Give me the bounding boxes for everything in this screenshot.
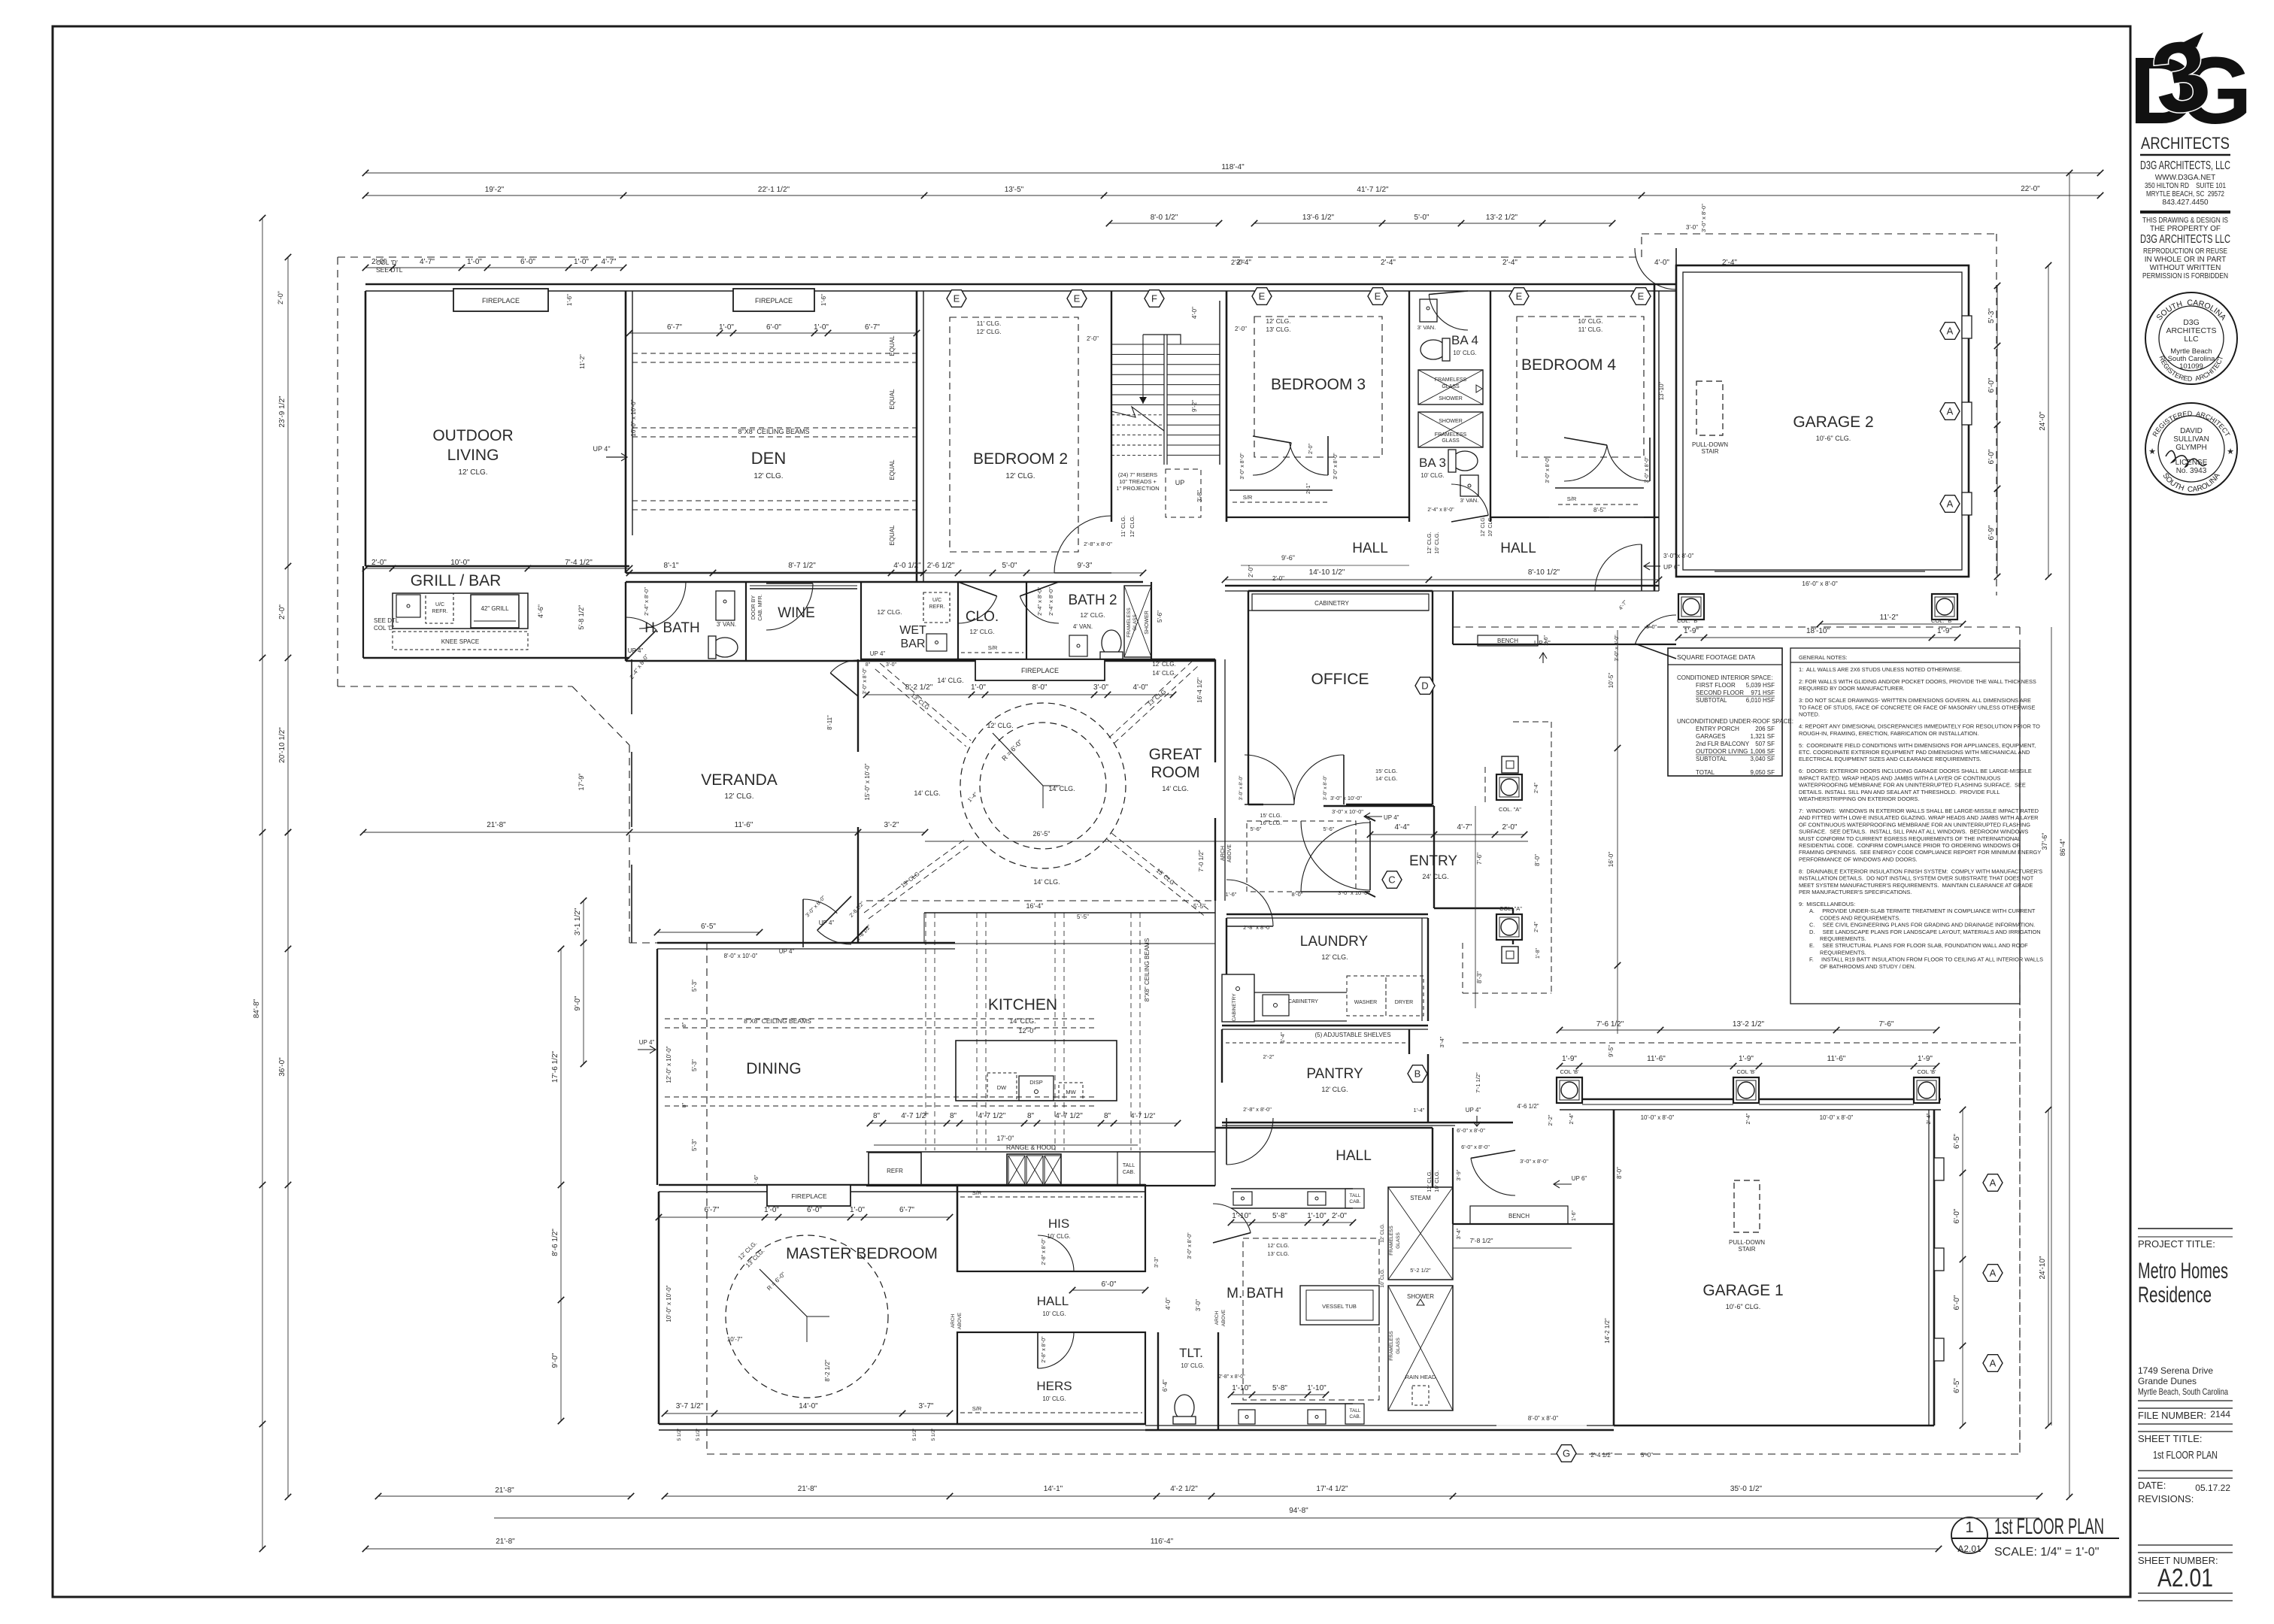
svg-text:05.17.22: 05.17.22 — [2195, 1483, 2230, 1493]
svg-text:DW: DW — [997, 1084, 1007, 1091]
garage1 A markers — [1983, 1174, 2003, 1192]
svg-text:8: DRAINABLE EXTERIOR INSULAT: 8: DRAINABLE EXTERIOR INSULATION FINISH … — [1799, 868, 2042, 874]
svg-text:BEDROOM 2: BEDROOM 2 — [973, 450, 1068, 468]
svg-text:12' CLG.: 12' CLG. — [976, 328, 1001, 335]
svg-text:12' CLG.: 12' CLG. — [753, 472, 783, 480]
svg-text:BENCH: BENCH — [1497, 638, 1518, 644]
svg-text:12' CLG.: 12' CLG. — [1152, 661, 1175, 668]
svg-text:M. BATH: M. BATH — [1226, 1286, 1284, 1301]
bath2 shower — [1124, 586, 1151, 657]
svg-text:E: E — [954, 293, 960, 304]
svg-text:D3G ARCHITECTS LLC: D3G ARCHITECTS LLC — [2140, 233, 2230, 246]
bottom dim rows — [665, 1495, 2039, 1497]
G hexagon — [1557, 1445, 1576, 1462]
svg-text:EQUAL: EQUAL — [889, 335, 896, 356]
svg-text:6'-5": 6'-5" — [701, 923, 716, 931]
svg-text:DETAILS. INSTALL SILL PAN AND: DETAILS. INSTALL SILL PAN AND SEALANT AT… — [1799, 789, 2000, 795]
svg-text:★: ★ — [2227, 447, 2234, 456]
svg-text:1'-8": 1'-8" — [1536, 948, 1541, 959]
svg-text:TALL: TALL — [1349, 1193, 1360, 1198]
svg-text:No. 3943: No. 3943 — [2176, 467, 2207, 475]
svg-text:LICENSE: LICENSE — [2175, 459, 2208, 467]
window marker hexagons E/F top wall — [947, 290, 966, 308]
svg-text:CLO.: CLO. — [966, 609, 999, 625]
svg-text:ROOM: ROOM — [1151, 764, 1199, 781]
bedroom2 door arc — [1054, 516, 1111, 573]
svg-text:SUBTOTAL: SUBTOTAL — [1696, 756, 1727, 762]
svg-text:971 HSF: 971 HSF — [1751, 689, 1775, 696]
svg-text:D: D — [1421, 680, 1428, 692]
svg-text:ARCH: ARCH — [951, 1313, 956, 1328]
svg-text:GLASS: GLASS — [1132, 614, 1138, 631]
svg-text:1'-0": 1'-0" — [467, 258, 482, 266]
svg-text:DATE:: DATE: — [2138, 1480, 2166, 1491]
svg-text:1: 1 — [1965, 1519, 1973, 1536]
svg-text:3'-1 1/2": 3'-1 1/2" — [574, 907, 582, 935]
svg-text:41'-7 1/2": 41'-7 1/2" — [1357, 186, 1389, 194]
svg-text:MUST CONFORM TO CURRENT EGRESS: MUST CONFORM TO CURRENT EGRESS REQUIREME… — [1799, 835, 2021, 842]
svg-text:THIS DRAWING & DESIGN IS: THIS DRAWING & DESIGN IS — [2142, 217, 2228, 225]
svg-text:8'-2 1/2": 8'-2 1/2" — [905, 683, 933, 692]
svg-text:GENERAL NOTES:: GENERAL NOTES: — [1799, 654, 1848, 661]
svg-text:2'-0": 2'-0" — [1308, 444, 1314, 454]
svg-text:1,321 SF: 1,321 SF — [1751, 733, 1775, 740]
svg-text:VERANDA: VERANDA — [701, 771, 778, 789]
svg-text:FIREPLACE: FIREPLACE — [755, 297, 793, 304]
svg-text:FIREPLACE: FIREPLACE — [482, 297, 520, 304]
svg-text:6'-0" x 8'-0": 6'-0" x 8'-0" — [1461, 1144, 1490, 1150]
svg-text:12'-0": 12'-0" — [1019, 1027, 1036, 1035]
svg-text:10' CLG.: 10' CLG. — [1042, 1310, 1066, 1317]
svg-text:5'-2 1/2": 5'-2 1/2" — [1410, 1267, 1431, 1274]
master south wall — [659, 1423, 1145, 1426]
svg-text:3'-0" x 8'-0": 3'-0" x 8'-0" — [1663, 553, 1693, 559]
svg-text:4'-6 1/2": 4'-6 1/2" — [1517, 1103, 1539, 1110]
svg-text:37'-6": 37'-6" — [2041, 833, 2048, 850]
svg-text:94'-8": 94'-8" — [1289, 1507, 1308, 1515]
steam shower — [1388, 1187, 1453, 1280]
svg-text:15' CLG.: 15' CLG. — [1260, 812, 1281, 819]
svg-text:8": 8" — [873, 1112, 881, 1120]
svg-text:SCALE: 1/4" = 1'-0": SCALE: 1/4" = 1'-0" — [1994, 1546, 2099, 1559]
svg-text:FRAMELESS: FRAMELESS — [1435, 432, 1467, 438]
svg-text:13'-6 1/2": 13'-6 1/2" — [1302, 214, 1335, 222]
svg-text:1'-6": 1'-6" — [753, 1174, 760, 1186]
svg-text:3'-0" x 10'-0": 3'-0" x 10'-0" — [1338, 889, 1369, 896]
svg-text:FIRST FLOOR: FIRST FLOOR — [1696, 682, 1736, 689]
svg-text:7'-0 1/2": 7'-0 1/2" — [1198, 850, 1205, 871]
svg-text:12' CLG.: 12' CLG. — [1129, 515, 1135, 537]
bedroom 3 — [1226, 291, 1228, 522]
roof overhang dashed outline — [338, 256, 1642, 258]
svg-text:2'-1": 2'-1" — [1306, 483, 1311, 494]
svg-text:BATH 2: BATH 2 — [1068, 592, 1117, 608]
svg-text:1'-0": 1'-0" — [764, 1206, 779, 1214]
svg-text:13'-10": 13'-10" — [1658, 381, 1665, 400]
svg-text:2'-0": 2'-0" — [1248, 565, 1254, 577]
svg-text:2: FOR WALLS WITH GLIDING AND/: 2: FOR WALLS WITH GLIDING AND/OR POCKET … — [1799, 678, 2036, 685]
svg-text:UP 4": UP 4" — [1384, 814, 1399, 821]
svg-text:101099: 101099 — [2179, 362, 2203, 371]
bedroom 4 — [1517, 317, 1644, 457]
svg-text:KITCHEN: KITCHEN — [988, 996, 1057, 1013]
dining ceiling beams — [665, 1018, 1094, 1020]
svg-text:10' CLG.: 10' CLG. — [1578, 317, 1602, 325]
svg-text:8"X8" CEILING BEAMS: 8"X8" CEILING BEAMS — [1144, 938, 1151, 1001]
svg-text:8'-2 1/2": 8'-2 1/2" — [824, 1359, 831, 1381]
svg-text:REQUIREMENTS.: REQUIREMENTS. — [1820, 935, 1866, 942]
grill bar area — [362, 566, 364, 658]
master bedroom — [658, 1192, 660, 1424]
kitchen dim row — [870, 1123, 1178, 1124]
svg-text:2'-6 1/2": 2'-6 1/2" — [927, 562, 955, 570]
svg-text:SULLIVAN: SULLIVAN — [2173, 435, 2209, 444]
svg-text:8'-0 1/2": 8'-0 1/2" — [1151, 214, 1178, 222]
svg-text:REFR.: REFR. — [929, 604, 945, 610]
svg-text:ENTRY PORCH: ENTRY PORCH — [1696, 726, 1739, 732]
svg-text:STAIR: STAIR — [1702, 448, 1719, 455]
master suite top wall — [659, 1184, 1145, 1186]
svg-text:6'-7": 6'-7" — [865, 323, 880, 332]
garage 2 — [1676, 265, 1969, 577]
bedroom 2 — [950, 317, 1078, 552]
svg-text:5'-8": 5'-8" — [1272, 1384, 1287, 1392]
svg-text:22'-1 1/2": 22'-1 1/2" — [758, 186, 790, 194]
svg-text:5'-6": 5'-6" — [1157, 611, 1163, 623]
svg-text:13' CLG.: 13' CLG. — [1266, 326, 1290, 333]
svg-text:REFR.: REFR. — [432, 609, 448, 614]
svg-text:E: E — [1375, 291, 1381, 302]
svg-text:1'-0": 1'-0" — [814, 323, 829, 332]
svg-text:4'-2 1/2": 4'-2 1/2" — [1170, 1485, 1198, 1493]
svg-text:C: C — [1388, 874, 1395, 886]
svg-text:3'-0" x 8'-0": 3'-0" x 8'-0" — [863, 668, 868, 695]
svg-text:BA 4: BA 4 — [1451, 333, 1478, 347]
svg-text:2'-8" x 8'-0": 2'-8" x 8'-0" — [1041, 1238, 1047, 1265]
svg-text:8": 8" — [1104, 1112, 1111, 1120]
svg-text:36'-0": 36'-0" — [278, 1057, 287, 1077]
svg-text:10'-0" x 8'-0": 10'-0" x 8'-0" — [1641, 1114, 1675, 1121]
svg-text:5: COORDINATE FIELD CONDITION: 5: COORDINATE FIELD CONDITIONS WITH DIME… — [1799, 742, 2036, 749]
svg-text:8": 8" — [950, 1112, 957, 1120]
svg-text:21'-8": 21'-8" — [487, 821, 506, 829]
svg-text:FRAMELESS: FRAMELESS — [1126, 607, 1132, 638]
svg-text:MEET SYSTEM MANUFACTURER'S REQ: MEET SYSTEM MANUFACTURER'S REQUIREMENTS.… — [1799, 882, 2033, 889]
svg-text:3'-4": 3'-4" — [1455, 1228, 1462, 1239]
svg-text:1'-10": 1'-10" — [1307, 1384, 1326, 1392]
svg-text:8'-0": 8'-0" — [1292, 891, 1303, 898]
svg-text:11'-6": 11'-6" — [1647, 1055, 1666, 1063]
svg-text:12' CLG.: 12' CLG. — [458, 468, 487, 477]
svg-text:1'-0": 1'-0" — [719, 323, 734, 332]
svg-text:UP 6": UP 6" — [1534, 639, 1551, 647]
svg-text:2'-0": 2'-0" — [277, 291, 284, 304]
svg-text:24'-0": 24'-0" — [2039, 411, 2047, 431]
svg-text:1'-9": 1'-9" — [1918, 1055, 1933, 1063]
svg-text:2'-8" x 8'-0": 2'-8" x 8'-0" — [1084, 541, 1112, 547]
svg-text:E: E — [1638, 291, 1645, 302]
svg-text:8'-11": 8'-11" — [826, 715, 833, 730]
svg-text:COL. "A": COL. "A" — [1499, 806, 1521, 813]
svg-text:14' CLG.: 14' CLG. — [1375, 775, 1397, 782]
svg-text:24' CLG.: 24' CLG. — [1422, 873, 1448, 880]
svg-text:RAIN HEAD: RAIN HEAD — [1405, 1374, 1436, 1380]
svg-text:F: F — [1151, 293, 1157, 304]
svg-text:THE PROPERTY OF: THE PROPERTY OF — [2150, 225, 2221, 233]
veranda NE corner door — [830, 660, 858, 673]
top exterior wall — [365, 283, 1111, 286]
svg-text:14' CLG.: 14' CLG. — [1152, 670, 1175, 677]
svg-text:ETC. COORDINATE EXTERIOR EQUIP: ETC. COORDINATE EXTERIOR EQUIPMENT PAD D… — [1799, 749, 2030, 756]
svg-text:UNCONDITIONED UNDER-ROOF SPACE: UNCONDITIONED UNDER-ROOF SPACE: — [1677, 718, 1793, 725]
svg-text:3'-0" x 8'-0": 3'-0" x 8'-0" — [1545, 456, 1551, 483]
svg-text:2nd FLR BALCONY: 2nd FLR BALCONY — [1696, 741, 1750, 747]
svg-text:3'-0" x 8'-0": 3'-0" x 8'-0" — [1645, 456, 1650, 483]
svg-text:TALL: TALL — [1123, 1163, 1135, 1168]
svg-text:S/R: S/R — [972, 1405, 982, 1412]
svg-text:UP 6": UP 6" — [1572, 1175, 1587, 1182]
svg-text:LIVING: LIVING — [447, 447, 499, 464]
outdoor living room — [365, 291, 367, 566]
svg-text:OUTDOOR: OUTDOOR — [432, 427, 513, 444]
svg-text:(5) ADJUSTABLE SHELVES: (5) ADJUSTABLE SHELVES — [1314, 1032, 1390, 1038]
svg-text:FRAMELESS: FRAMELESS — [1389, 1226, 1394, 1256]
svg-text:★: ★ — [2148, 447, 2156, 456]
svg-text:14' CLG.: 14' CLG. — [937, 677, 963, 684]
svg-text:350 HILTON RD SUITE 101: 350 HILTON RD SUITE 101 — [2145, 182, 2226, 190]
svg-text:7'-6 1/2": 7'-6 1/2" — [1596, 1020, 1624, 1029]
bedroom4 double doors — [1564, 445, 1607, 481]
svg-text:8": 8" — [1027, 1112, 1035, 1120]
svg-text:6'-0" x 8'-0": 6'-0" x 8'-0" — [1457, 1127, 1485, 1134]
svg-text:Grande Dunes: Grande Dunes — [2138, 1376, 2197, 1386]
svg-text:PER MANUFACTURER'S SPECIFICATI: PER MANUFACTURER'S SPECIFICATIONS. — [1799, 889, 1912, 895]
svg-text:3'-7": 3'-7" — [919, 1402, 934, 1410]
svg-text:FRAMING OPENINGS. SEE ENERGY: FRAMING OPENINGS. SEE ENERGY CODE COMPLI… — [1799, 849, 2041, 856]
svg-text:9'-3": 9'-3" — [1078, 562, 1093, 570]
svg-text:12'-0" x 10'-0": 12'-0" x 10'-0" — [666, 1046, 672, 1083]
svg-text:6'-0": 6'-0" — [1987, 449, 1996, 464]
fireplace den — [733, 289, 814, 311]
svg-text:OFFICE: OFFICE — [1311, 671, 1369, 688]
svg-text:OF BATHROOMS AND STUDY / DEN.: OF BATHROOMS AND STUDY / DEN. — [1820, 963, 1915, 970]
svg-text:GLASS: GLASS — [1396, 1232, 1401, 1249]
svg-text:10' CLG.: 10' CLG. — [1047, 1233, 1070, 1240]
svg-text:12' CLG.: 12' CLG. — [877, 608, 902, 616]
svg-text:6'-0": 6'-0" — [766, 323, 781, 332]
svg-text:TLT.: TLT. — [1179, 1346, 1203, 1360]
svg-text:WEATHERSTRIPPING ON EXTERIOR D: WEATHERSTRIPPING ON EXTERIOR DOORS. — [1799, 795, 1919, 802]
svg-text:1'-10": 1'-10" — [1307, 1212, 1326, 1220]
svg-text:GRILL / BAR: GRILL / BAR — [411, 572, 502, 589]
m bath walls — [1218, 1429, 1614, 1432]
svg-text:CABINETRY: CABINETRY — [1232, 993, 1237, 1022]
svg-text:1,006 SF: 1,006 SF — [1751, 748, 1775, 755]
BA4 bathroom — [1408, 291, 1410, 522]
svg-text:1: ALL WALLS ARE 2X6 STUDS UN: 1: ALL WALLS ARE 2X6 STUDS UNLESS NOTED … — [1799, 666, 1962, 673]
svg-text:SURFACE. SEE DETAILS. INSTAL: SURFACE. SEE DETAILS. INSTALL SILL PAN A… — [1799, 829, 2028, 835]
svg-text:11'-6": 11'-6" — [735, 821, 753, 829]
svg-text:LLC: LLC — [2184, 335, 2199, 344]
svg-text:HIS: HIS — [1048, 1216, 1069, 1231]
svg-text:11'-2": 11'-2" — [579, 354, 586, 369]
svg-text:8'-0": 8'-0" — [1646, 625, 1657, 630]
svg-text:10'-0": 10'-0" — [450, 559, 470, 567]
svg-text:1'-0": 1'-0" — [574, 258, 589, 266]
svg-text:F. INSTALL R19 BATT INSULA: F. INSTALL R19 BATT INSULATION FROM FLOO… — [1809, 956, 2043, 963]
veranda SE corner doors — [817, 930, 851, 944]
svg-text:RANGE & HOOD: RANGE & HOOD — [1006, 1144, 1056, 1151]
svg-text:2'-0": 2'-0" — [278, 604, 287, 620]
svg-text:23'-9 1/2": 23'-9 1/2" — [278, 395, 287, 428]
dining room — [657, 942, 955, 944]
bench wall garage2 side — [1453, 644, 1676, 645]
svg-text:507 SF: 507 SF — [1755, 741, 1775, 747]
svg-text:E: E — [1516, 291, 1523, 302]
svg-text:7'-4 1/2": 7'-4 1/2" — [565, 559, 593, 567]
svg-text:INSTALLATION DETAILS. DO NOT: INSTALLATION DETAILS. DO NOT INSTALL SYS… — [1799, 875, 2034, 882]
svg-text:6'-7": 6'-7" — [705, 1206, 720, 1214]
svg-text:2'-0": 2'-0" — [1087, 335, 1099, 342]
svg-text:1'-9": 1'-9" — [1739, 1055, 1754, 1063]
den window dims — [629, 332, 917, 334]
svg-text:8'-5": 8'-5" — [1593, 507, 1605, 514]
vessel tub — [1300, 1286, 1379, 1325]
svg-text:Residence: Residence — [2138, 1283, 2212, 1307]
svg-text:3'-0" x 8'-0": 3'-0" x 8'-0" — [1239, 775, 1244, 800]
svg-text:2'-8" x 8'-0": 2'-8" x 8'-0" — [1218, 1374, 1245, 1380]
svg-text:3'-9": 3'-9" — [1455, 1169, 1462, 1180]
svg-text:1'-6": 1'-6" — [1226, 891, 1237, 898]
svg-text:PULL-DOWN: PULL-DOWN — [1729, 1239, 1765, 1246]
svg-text:5'-3": 5'-3" — [691, 1139, 698, 1151]
svg-text:16'-4 1/2": 16'-4 1/2" — [1196, 677, 1203, 703]
svg-text:5'-0": 5'-0" — [1414, 214, 1430, 222]
svg-text:A: A — [1947, 406, 1954, 417]
svg-text:11' CLG.: 11' CLG. — [1120, 516, 1126, 538]
svg-text:13'-5": 13'-5" — [1005, 186, 1024, 194]
long dim line mid — [363, 832, 925, 833]
svg-text:MW: MW — [1066, 1089, 1076, 1095]
office — [1248, 590, 1433, 592]
svg-text:24'-10": 24'-10" — [2039, 1256, 2047, 1279]
svg-text:OF CONTINUOUS WATERPROOFING ME: OF CONTINUOUS WATERPROOFING MEMBRANE FOR… — [1799, 821, 2030, 828]
svg-text:SECOND FLOOR: SECOND FLOOR — [1696, 689, 1744, 696]
svg-text:3'-0": 3'-0" — [1093, 683, 1108, 692]
svg-text:8": 8" — [682, 1022, 687, 1027]
svg-text:11'-6": 11'-6" — [1827, 1055, 1846, 1063]
svg-text:14'-1": 14'-1" — [1044, 1485, 1063, 1493]
svg-text:5 1/2": 5 1/2" — [912, 1428, 917, 1441]
svg-text:WET: WET — [899, 624, 926, 637]
svg-text:8'-0": 8'-0" — [1032, 683, 1048, 692]
svg-text:5'-5": 5'-5" — [1077, 913, 1089, 920]
svg-text:GLASS: GLASS — [1396, 1338, 1401, 1354]
svg-text:4'-7 1/2": 4'-7 1/2" — [1055, 1112, 1083, 1120]
bedroom3 double doors — [1253, 443, 1291, 475]
svg-text:11' CLG.: 11' CLG. — [977, 320, 1002, 327]
svg-text:G: G — [1563, 1448, 1570, 1459]
svg-text:12' CLG.: 12' CLG. — [1426, 532, 1433, 553]
svg-text:UP 4": UP 4" — [628, 647, 644, 654]
svg-text:2'-8" x 8'-0": 2'-8" x 8'-0" — [1243, 1106, 1272, 1113]
svg-text:FILE NUMBER:: FILE NUMBER: — [2138, 1410, 2206, 1421]
svg-text:13' CLG.: 13' CLG. — [1267, 1250, 1289, 1257]
svg-text:ELECTRICAL EQUIPMENT SIZES AND: ELECTRICAL EQUIPMENT SIZES AND CLEARANCE… — [1799, 756, 1981, 762]
svg-text:2'-4" x 8'-0": 2'-4" x 8'-0" — [1427, 507, 1454, 513]
svg-text:A2.01: A2.01 — [2157, 1564, 2213, 1592]
svg-text:E: E — [1074, 293, 1081, 304]
svg-text:E: E — [1259, 291, 1266, 302]
svg-text:6'-0": 6'-0" — [1987, 377, 1996, 392]
svg-text:13'-2 1/2": 13'-2 1/2" — [1733, 1020, 1765, 1029]
svg-text:CAB. MFR.: CAB. MFR. — [758, 594, 763, 620]
svg-text:ARCH: ARCH — [1214, 1310, 1220, 1325]
svg-text:6'-0": 6'-0" — [1953, 1295, 1961, 1310]
svg-text:HERS: HERS — [1036, 1379, 1072, 1393]
svg-text:10' CLG.: 10' CLG. — [1420, 472, 1444, 479]
svg-text:S/R: S/R — [1243, 494, 1253, 501]
svg-text:15'-0" x 10'-0": 15'-0" x 10'-0" — [864, 763, 871, 800]
svg-text:3,040 SF: 3,040 SF — [1751, 756, 1775, 762]
garage1 right dims — [1962, 1110, 1963, 1426]
entry porch columns COL A — [1496, 774, 1522, 800]
svg-text:PROJECT TITLE:: PROJECT TITLE: — [2138, 1238, 2215, 1250]
svg-text:1'-9": 1'-9" — [1562, 1055, 1577, 1063]
svg-text:1" PROJECTION: 1" PROJECTION — [1116, 485, 1159, 492]
svg-text:UP 4": UP 4" — [1466, 1107, 1481, 1113]
svg-text:D. SEE LANDSCAPE PLANS FOR: D. SEE LANDSCAPE PLANS FOR LANDSCAPE LAY… — [1809, 929, 2041, 935]
svg-text:A2.01: A2.01 — [1957, 1544, 1981, 1554]
svg-text:10' CLG.: 10' CLG. — [1042, 1395, 1066, 1402]
svg-text:1'-6": 1'-6" — [820, 294, 827, 306]
svg-text:4: REPORT ANY DIMESIONAL DISCR: 4: REPORT ANY DIMESIONAL DISCREPANCIES I… — [1799, 723, 2040, 730]
svg-text:1'-4": 1'-4" — [1414, 1107, 1425, 1113]
svg-text:IN WHOLE OR IN PART: IN WHOLE OR IN PART — [2145, 256, 2227, 264]
svg-text:2'-4": 2'-4" — [1502, 259, 1518, 267]
great room fireplace wall — [861, 659, 1215, 660]
svg-text:12' CLG.: 12' CLG. — [1080, 611, 1105, 619]
svg-text:3'-0" x 8'-0": 3'-0" x 8'-0" — [1333, 453, 1339, 480]
svg-text:8'-0": 8'-0" — [1616, 1167, 1623, 1179]
svg-text:3'-0": 3'-0" — [1195, 1299, 1202, 1311]
svg-text:FRAMELESS: FRAMELESS — [1435, 377, 1467, 383]
svg-text:15' CLG.: 15' CLG. — [1375, 768, 1397, 774]
svg-text:5'-6": 5'-6" — [1323, 826, 1335, 832]
svg-text:S/R: S/R — [972, 1189, 982, 1196]
svg-text:12' CLG.: 12' CLG. — [987, 722, 1013, 729]
svg-text:2'-4 1/2": 2'-4 1/2" — [1590, 1452, 1612, 1459]
svg-text:8"X8" CEILING BEAMS: 8"X8" CEILING BEAMS — [738, 428, 810, 435]
svg-text:5 1/2": 5 1/2" — [931, 1428, 936, 1441]
svg-text:6'-0": 6'-0" — [1102, 1280, 1117, 1289]
svg-text:Metro Homes: Metro Homes — [2138, 1259, 2228, 1283]
svg-text:8'-0": 8'-0" — [1534, 854, 1541, 866]
svg-text:8"X8" CEILING BEAMS: 8"X8" CEILING BEAMS — [744, 1017, 811, 1025]
general notes — [1790, 648, 2020, 1004]
svg-text:BEDROOM 3: BEDROOM 3 — [1271, 376, 1366, 393]
garage2 right dims — [1997, 286, 1998, 577]
svg-text:COL 'D': COL 'D' — [376, 259, 398, 266]
svg-text:5'-6": 5'-6" — [1251, 826, 1262, 832]
svg-text:9'-2": 9'-2" — [1191, 400, 1198, 412]
svg-text:10'-5": 10'-5" — [1608, 673, 1615, 689]
svg-text:2'-4": 2'-4" — [1381, 259, 1396, 267]
svg-text:PERFORMANCE OF WINDOWS AND DOO: PERFORMANCE OF WINDOWS AND DOORS. — [1799, 856, 1918, 862]
svg-text:SHOWER: SHOWER — [1439, 419, 1463, 424]
svg-text:7: WINDOWS: WINDOWS IN EXTER: 7: WINDOWS: WINDOWS IN EXTERIOR WALLS SH… — [1799, 807, 2039, 814]
svg-text:8": 8" — [682, 1102, 687, 1107]
